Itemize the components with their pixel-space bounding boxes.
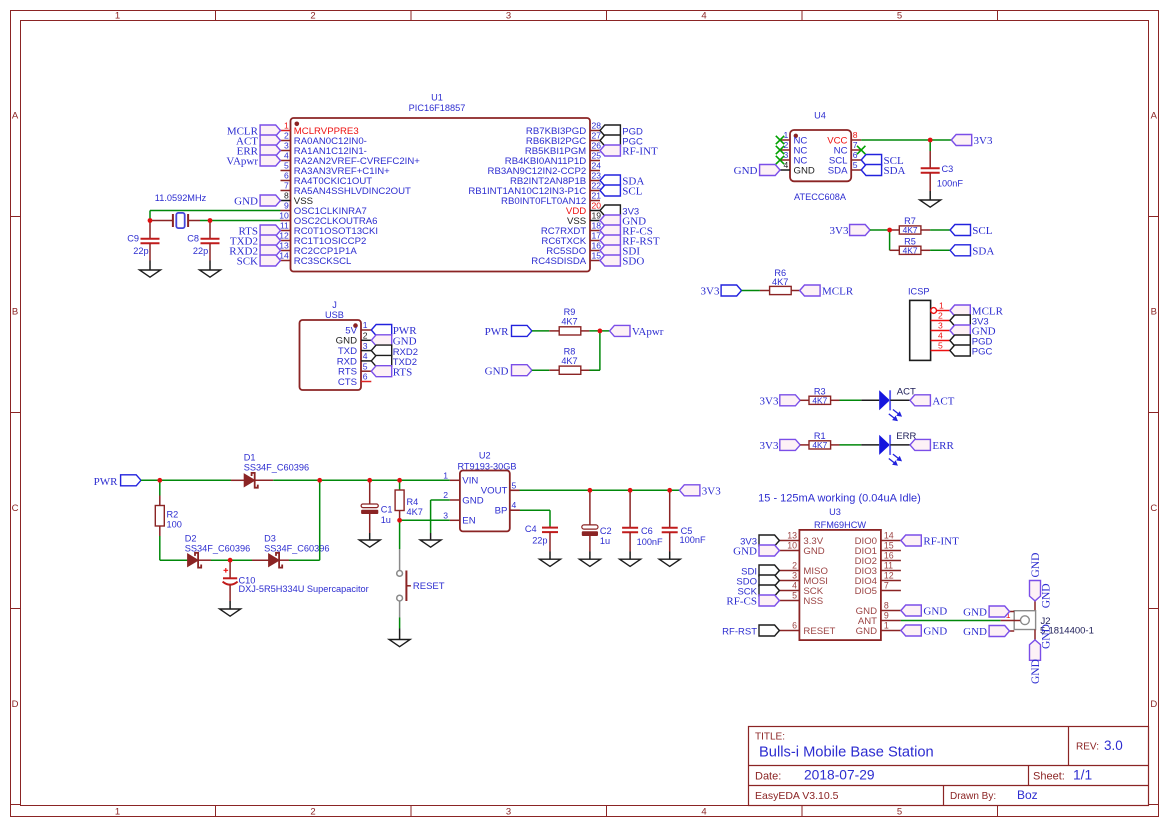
U1 pin 19 VSS [567,211,601,227]
svg-text:GND: GND [856,626,877,637]
svg-text:U3: U3 [829,507,841,517]
net flag TXD2 at U1 [230,235,281,248]
title block texts [755,732,1123,803]
U1 pin 12 RC1T1OSICCP2 [279,231,366,247]
svg-text:3V3: 3V3 [701,286,720,298]
U4 pin 1 NC [780,130,807,146]
U1 pin 2 RA0AN0C12IN0- [281,131,367,147]
R7 label [904,216,916,226]
R5 label [904,236,916,246]
svg-text:1: 1 [284,121,289,131]
svg-text:5: 5 [363,361,368,371]
resistor R6 [760,286,800,294]
svg-text:11: 11 [884,561,893,571]
C6 labels [637,526,663,547]
net flag VApwr at U1 [226,155,280,168]
U1 pin 22 RB1INT1AN10C12IN3-P1C [468,181,601,197]
RESET label [413,581,445,592]
svg-text:4: 4 [792,581,797,591]
svg-text:2: 2 [938,311,943,321]
no-connect X mark U4 pin 7 [857,146,865,154]
U1 pin 24 RB3AN9C12IN2-CCP2 [488,161,602,177]
svg-text:GND: GND [234,196,258,208]
svg-text:22p: 22p [193,246,208,256]
svg-text:1: 1 [884,621,889,631]
svg-text:REV:: REV: [1076,742,1099,753]
ground below RESET [389,640,410,647]
svg-text:28: 28 [592,121,602,131]
svg-text:PWR: PWR [485,326,510,338]
svg-text:4: 4 [701,10,706,21]
rotated GND label right of J2 bottom [1040,624,1052,649]
resistor R2 [155,480,164,560]
R8 labels [561,347,577,366]
wire LED to ACT flag [890,399,910,401]
resistor R7 [890,225,931,235]
U1 pin 1 MCLRVPPRE3 [281,121,359,137]
svg-text:2: 2 [284,131,289,141]
svg-text:7: 7 [853,140,858,150]
svg-text:4K7: 4K7 [903,225,918,235]
svg-text:GND: GND [733,546,757,558]
net flag RF-CS at U1 right [600,225,653,238]
svg-text:PGC: PGC [972,347,993,358]
R6 labels [772,268,788,287]
net flag ACT at U1 [236,135,281,148]
R4 labels [407,497,423,517]
svg-text:2: 2 [310,806,315,817]
svg-text:5: 5 [897,10,902,21]
svg-text:C1: C1 [381,505,393,515]
U1 pin 10 OSC2CLKOUTRA6 [279,211,377,227]
U3 pin 8 GND [856,601,901,617]
junction D1 out [317,478,322,483]
svg-text:Date:: Date: [755,770,781,782]
svg-text:3V3: 3V3 [974,135,993,147]
wire R9 to VApwr [589,330,609,332]
resistor R3 [800,395,839,405]
net flag SCL at U1 right [600,185,643,198]
IC U3 RFM69HCW body [799,530,881,640]
svg-text:24: 24 [592,161,602,171]
junction R4 top [397,478,402,483]
capacitor C6 [622,490,638,551]
svg-text:4: 4 [701,806,706,817]
U1 pin 4 RA2AN2VREF-CVREFC2IN+ [281,151,421,167]
net flag RF-RST at U1 right [600,235,660,248]
U2 VOUT stub wire [510,489,520,491]
R9 labels [561,307,577,326]
junction C1 top [367,478,372,483]
svg-text:2018-07-29: 2018-07-29 [804,767,875,782]
wire R8 to junction [589,369,600,371]
U3 pin 1 GND [856,621,901,637]
svg-text:SDA: SDA [972,246,994,258]
svg-text:100nF: 100nF [637,537,663,547]
svg-text:RF-INT: RF-INT [923,536,959,548]
net flag GND at J2 left upper [963,606,1009,619]
U3 pin 5 NSS [779,591,823,607]
crystal X1 [150,213,200,228]
svg-text:22: 22 [592,181,602,191]
svg-text:C8: C8 [187,234,199,244]
net flag PGD at ICSP [950,335,993,348]
net flag 3V3 at R7 [830,225,870,238]
U1 pin 8 VSS [281,191,314,207]
net flag 3V3 at R6 [701,285,742,298]
ICSP pin 4 [931,331,950,341]
U1 pin 20 VDD [566,201,601,217]
net flag 3V3 at U1 right [600,205,639,218]
U1 pin 9 OSC1CLKINRA7 [281,201,367,217]
svg-text:16: 16 [592,241,602,251]
J pin 1 5V [345,320,371,336]
svg-text:GND: GND [1030,659,1042,684]
net flag MCLR at U1 [227,125,281,138]
C4 labels [525,524,548,546]
U1 pin 26 RB5KBI1PGM [525,141,601,157]
svg-text:20: 20 [592,201,602,211]
svg-text:4K7: 4K7 [903,245,918,255]
wire U2 GND to ground [431,500,450,540]
ground below C9 [140,261,161,278]
svg-text:VOUT: VOUT [481,486,508,497]
svg-text:3: 3 [938,321,943,331]
svg-text:3V3: 3V3 [702,486,721,498]
svg-text:1: 1 [115,10,120,21]
wire R2 to D2 [160,559,188,561]
svg-text:2: 2 [784,140,789,150]
svg-text:4K7: 4K7 [561,317,577,327]
net flag PWR input [94,475,141,488]
svg-text:NSS: NSS [803,596,823,607]
net flag MCLR at R6 [800,285,854,298]
diode D3 [252,553,289,568]
net flag SDI at U1 right [600,245,640,258]
C5 labels [680,526,706,545]
svg-text:GND: GND [963,607,987,619]
U1 pin 27 RB6KBI2PGC [526,131,601,147]
J pin 5 RTS [338,361,371,377]
svg-text:15: 15 [592,251,602,261]
net flag 3V3 at R3 [760,395,801,408]
svg-text:VApwr: VApwr [226,156,258,168]
svg-text:GND: GND [1030,553,1042,578]
svg-text:25: 25 [592,151,602,161]
ICSP pin 2 [931,311,950,321]
svg-text:D2: D2 [185,534,197,544]
svg-text:6: 6 [792,621,797,631]
svg-text:26: 26 [592,141,602,151]
IC U1 PIC16F18857 body [291,118,591,272]
wire rail to R4 [370,479,400,481]
svg-text:6: 6 [363,372,368,382]
junction crystal right [208,218,213,223]
wire GND to R8 [532,369,549,371]
svg-text:R1: R1 [814,431,826,441]
capacitor C1 [361,480,378,533]
net flag GND at J [371,335,416,348]
ground below C5 [659,552,680,567]
J pin 3 TXD [338,341,371,357]
J reference label [325,300,344,320]
J2 top pin lead [1034,601,1036,610]
svg-text:GND: GND [923,626,947,638]
svg-text:ERR: ERR [932,440,954,452]
net flag SDI at U3 left [741,565,779,578]
net flag PGC at U1 right [600,135,643,148]
svg-text:R4: R4 [407,497,419,507]
svg-text:6: 6 [853,150,858,160]
svg-text:7: 7 [284,181,289,191]
C10 labels [239,576,369,595]
pushbutton RESET [397,520,411,639]
svg-text:J: J [332,300,337,310]
svg-text:3: 3 [443,510,448,520]
svg-text:4K7: 4K7 [812,395,827,405]
wire VOUT rail [520,489,680,491]
wire VCC to 3V3 [861,139,951,141]
net flag RF-CS at U3 left [726,595,779,608]
C1 labels [381,505,393,526]
svg-text:D: D [1150,699,1157,710]
svg-text:Bulls-i Mobile Base Station: Bulls-i Mobile Base Station [759,745,934,761]
net flag GND at U3 pin8 [901,605,947,618]
D3 labels [264,534,329,554]
wire R3 to LED [840,399,862,401]
svg-text:CTS: CTS [338,377,357,388]
U3 pin 2 MISO [779,561,828,577]
svg-text:8: 8 [284,191,289,201]
U1 pin 15 RC4SDISDA [531,251,601,267]
svg-text:11.0592MHz: 11.0592MHz [155,193,207,203]
svg-text:A: A [1151,110,1158,121]
net flag GND at J2 bottom [1030,640,1042,684]
svg-text:U2: U2 [479,450,491,460]
svg-text:1u: 1u [381,515,391,525]
ground below C8 [200,261,221,278]
svg-text:TITLE:: TITLE: [755,732,785,743]
svg-text:100nF: 100nF [680,535,706,545]
svg-text:8: 8 [853,130,858,140]
svg-text:R2: R2 [167,509,179,519]
wire 3V3 to R6 [742,290,760,292]
wire D1 to junction2 [273,479,320,481]
net flag SCK at U1 [237,255,281,268]
wire ANT to J2 [901,620,1001,622]
resistor R5 [890,245,931,255]
wire BP to C4 [510,510,550,526]
wire rail to D1 [160,479,231,481]
U1 pin 21 RB0INT0FLT0AN12 [501,191,601,207]
U2 reference label [457,450,516,471]
svg-text:18: 18 [592,221,602,231]
wire to LED ACT anode [861,399,879,401]
svg-text:RC4SDISDA: RC4SDISDA [531,256,587,267]
wire R4 to EN [400,519,450,521]
ICSP pin 5 [931,341,950,351]
svg-text:13: 13 [279,241,289,251]
net flag MCLR at ICSP [950,305,1004,318]
svg-text:D: D [12,699,19,710]
capacitor C3 [921,140,940,191]
U3 pin 7 DIO5 [855,581,901,597]
wire PWR to junction [141,479,160,481]
svg-text:3: 3 [506,10,511,21]
svg-text:U4: U4 [814,111,826,121]
svg-text:4: 4 [784,160,789,170]
svg-text:RC3SCKSCL: RC3SCKSCL [294,256,352,267]
U1 reference label [409,93,466,114]
U1 pin 14 RC3SCKSCL [279,251,352,267]
svg-text:C4: C4 [525,524,537,534]
svg-text:D3: D3 [264,534,276,544]
svg-text:4: 4 [512,500,517,510]
svg-text:3V3: 3V3 [830,225,849,237]
wire PWR to R9 [532,330,549,332]
svg-text:SS34F_C60396: SS34F_C60396 [244,463,309,473]
wire R7 to SCL [930,229,950,231]
svg-text:PIC16F18857: PIC16F18857 [409,103,466,113]
net flag SDA at U4 [861,165,905,178]
U3 pin 4 SCK [779,581,823,597]
net flag RXD2 at U1 [229,245,280,258]
no-connect X marks U4 pins 1-3 [776,136,784,164]
svg-text:1/1: 1/1 [1073,767,1092,782]
C8 labels [187,234,208,257]
svg-text:GND: GND [462,495,483,506]
U1 pin 11 RC0T1OSOT13CKI [280,221,378,237]
J2 left upper pin [1010,611,1015,613]
resistor R1 [800,440,839,450]
svg-text:21: 21 [592,191,602,201]
svg-text:5: 5 [897,806,902,817]
net flag SCL at U4 [861,155,904,168]
U3 pin 15 DIO1 [855,541,901,557]
svg-text:SDO: SDO [622,256,644,268]
svg-text:GND: GND [923,606,947,618]
svg-text:C3: C3 [942,164,954,174]
net flag RF-INT at U1 right [600,145,658,158]
U1 pin 7 RA5AN4SSHLVDINC2OUT [281,181,412,197]
svg-text:4: 4 [938,331,943,341]
net flag ERR [910,439,954,452]
svg-text:GND: GND [485,365,509,377]
net flag 3V3 at R1 [760,439,801,452]
U1 pin 16 RC5SDO [546,241,601,257]
U4 pin 4 GND [780,160,815,176]
svg-text:DXJ-5R5H334U Supercapacitor: DXJ-5R5H334U Supercapacitor [239,584,369,594]
svg-text:5: 5 [938,341,943,351]
R3 label [814,386,826,396]
net flag SDA at U1 right [600,175,644,188]
svg-text:VIN: VIN [462,476,478,487]
junction C5 top [667,488,672,493]
U1 pin 25 RB4KBI0AN11P1D [505,151,602,167]
svg-text:2: 2 [363,331,368,341]
net flag PGC at ICSP [950,345,993,358]
net flag GND at R8 [485,365,532,378]
net flag GND at ICSP [950,325,996,338]
svg-text:D1: D1 [244,453,256,463]
net flag 3V3 at U3 left [740,535,779,548]
junction C3 top [928,138,933,143]
net flag SDO at U1 right [600,255,644,268]
svg-text:100: 100 [167,519,182,529]
net flag GND at U1 [234,195,280,208]
svg-text:SDA: SDA [884,165,906,177]
svg-text:RFM69HCW: RFM69HCW [814,520,866,530]
capacitor C9 [141,221,160,261]
svg-text:100nF: 100nF [937,179,963,189]
svg-text:ACT: ACT [932,396,954,408]
svg-text:1: 1 [784,130,789,140]
svg-text:3: 3 [506,806,511,817]
svg-text:ICSP: ICSP [908,287,929,297]
svg-text:14: 14 [279,251,289,261]
U4 reference label [794,111,847,203]
svg-text:GND: GND [1040,624,1052,649]
net flag RXD2 at J [371,345,418,358]
resistor R9 [549,327,589,335]
svg-text:15: 15 [884,541,894,551]
svg-text:USB: USB [325,310,344,320]
junction VApwr [598,329,603,334]
wire R5 to SDA [930,249,950,251]
J pin 6 CTS [338,372,371,388]
svg-text:11: 11 [280,221,289,231]
wire rail to C1 [320,479,370,481]
ICSP pin 3 [931,321,950,331]
U1 pin 3 RA1AN1C12IN1- [281,141,367,157]
C3 labels [937,164,963,189]
R2 labels [167,509,182,529]
svg-text:Boz: Boz [1017,788,1038,802]
U2 pin 5 VOUT [481,480,520,496]
svg-text:12: 12 [884,571,894,581]
svg-text:1u: 1u [600,536,610,546]
svg-text:3V3: 3V3 [760,396,779,408]
ground below C10 [220,601,241,616]
net flag SCL at R7 [950,225,993,238]
U2 pin 2 GND [443,490,483,506]
capacitor C5 [662,490,678,551]
resistor R4 [395,480,404,520]
U1 pin 13 RC2CCP1P1A [279,241,357,257]
svg-text:RT9193-30GB: RT9193-30GB [457,461,516,471]
svg-text:15 - 125mA working (0.04uA Idl: 15 - 125mA working (0.04uA Idle) [758,493,921,505]
IC U2 RT9193-30GB body [460,471,510,532]
note RF module current [758,493,921,505]
svg-text:17: 17 [592,231,602,241]
net flag SDA at R5 [950,245,994,258]
capacitor C4 [542,526,558,552]
svg-text:U1: U1 [431,93,443,103]
svg-text:C9: C9 [127,234,139,244]
svg-text:4K7: 4K7 [812,440,827,450]
U4 pin 5 SDA [828,160,861,176]
svg-text:GND: GND [794,165,815,176]
svg-text:VApwr: VApwr [632,326,664,338]
net flag ERR at U1 [237,145,281,158]
svg-text:EasyEDA V3.10.5: EasyEDA V3.10.5 [755,790,839,802]
connector J2 body [1014,611,1035,630]
ground below C1 [359,533,380,547]
wire junction down to R8 [599,331,601,370]
connector ICSP body [910,300,931,360]
svg-text:6: 6 [284,171,289,181]
D1 labels [244,453,309,473]
